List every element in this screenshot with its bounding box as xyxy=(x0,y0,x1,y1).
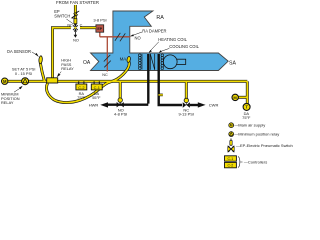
svg-text:C-1: C-1 xyxy=(228,157,234,161)
svg-text:HWR: HWR xyxy=(89,102,99,107)
svg-text:4-8 PSI: 4-8 PSI xyxy=(114,112,127,117)
svg-text:M: M xyxy=(230,124,233,128)
svg-text:EP: EP xyxy=(97,27,102,31)
svg-text:NC: NC xyxy=(67,23,73,27)
svg-text:HEATING COIL: HEATING COIL xyxy=(158,37,187,42)
svg-text:NO: NO xyxy=(135,35,141,40)
svg-text:9-13 PSI: 9-13 PSI xyxy=(179,112,195,117)
svg-text:C-1: C-1 xyxy=(94,85,100,90)
svg-text:C: C xyxy=(80,23,83,27)
svg-text:75°F: 75°F xyxy=(242,115,251,120)
svg-text:—Minimum position relay: —Minimum position relay xyxy=(234,132,279,137)
svg-text:T: T xyxy=(245,105,248,110)
svg-text:SWITCH: SWITCH xyxy=(54,13,70,18)
svg-text:C-2: C-2 xyxy=(228,164,234,168)
svg-text:SA: SA xyxy=(229,60,236,66)
svg-text:—Main air supply: —Main air supply xyxy=(234,123,265,128)
svg-text:NC: NC xyxy=(102,73,108,77)
svg-text:CWR: CWR xyxy=(209,102,219,107)
svg-text:NO: NO xyxy=(73,39,79,43)
svg-text:C-2: C-2 xyxy=(78,85,84,90)
svg-text:MA: MA xyxy=(120,57,127,62)
svg-text:55°F: 55°F xyxy=(92,95,101,100)
svg-text:FROM FAN STARTER: FROM FAN STARTER xyxy=(56,0,99,5)
svg-text:OA: OA xyxy=(83,60,91,66)
svg-text:RELAY: RELAY xyxy=(1,100,14,105)
svg-text:75°F: 75°F xyxy=(77,95,86,100)
svg-text:COOLING COIL: COOLING COIL xyxy=(169,44,199,49)
svg-text:RELAY: RELAY xyxy=(61,66,74,71)
svg-text:M: M xyxy=(3,79,7,84)
svg-text:3-8 PSI: 3-8 PSI xyxy=(93,17,106,22)
svg-text:OA SENSOR: OA SENSOR xyxy=(7,49,31,54)
svg-text:RA: RA xyxy=(156,15,164,21)
svg-text:RA DAMPER: RA DAMPER xyxy=(142,28,166,33)
svg-text:—Controllers: —Controllers xyxy=(244,160,267,165)
svg-text:—EP-Electric Pneumatic Switch: —EP-Electric Pneumatic Switch xyxy=(236,143,293,148)
svg-text:0 - 15 PSI: 0 - 15 PSI xyxy=(15,71,32,76)
